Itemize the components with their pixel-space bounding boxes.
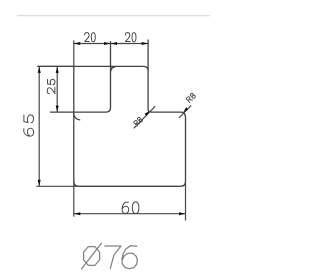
top edge — [37, 65, 143, 67]
60-dim line — [74, 213, 186, 215]
step floor right segment — [151, 111, 181, 113]
fillet R8 inside corner at right wall — [148, 109, 151, 112]
part outline: left edge — [73, 66, 75, 181]
right edge — [185, 118, 187, 182]
caption glyph: 6 of Ø76 — [122, 246, 137, 269]
dim text 25 (rotated) — [47, 79, 55, 93]
arrow top-dim middle right — [111, 42, 118, 45]
65-dim line — [38, 66, 40, 186]
arrow top-dim left — [74, 42, 81, 45]
65 bottom extension — [36, 185, 79, 187]
25-dim line — [56, 66, 58, 112]
60 right extension — [185, 181, 187, 220]
arrow 65 top — [38, 66, 41, 73]
radius text R8 #1 (rotated 45) — [134, 117, 143, 126]
arrow 60 left — [74, 212, 81, 215]
arrow top-dim middle left — [104, 42, 111, 45]
65 top extension — [37, 65, 74, 67]
caption glyph: 7 of Ø76 — [105, 246, 121, 268]
dim text 20 (left) — [85, 33, 96, 42]
caption glyph: diameter symbol of Ø76 — [82, 243, 138, 269]
fillet at top-right of top edge — [143, 66, 148, 71]
top dimension line — [74, 43, 149, 45]
60 left extension — [73, 181, 75, 217]
extension line left (above corner) — [73, 40, 75, 66]
arrow R8 #1 — [145, 111, 150, 116]
arrow R8 #2 — [183, 107, 188, 112]
interior fillet arc at left edge / step floor corner — [74, 113, 80, 119]
fillet top of right edge — [181, 112, 186, 118]
right wall of tab — [147, 40, 149, 110]
fillet at tab left wall top — [111, 67, 116, 72]
step floor left segment — [50, 111, 106, 113]
arrow 60 right — [179, 212, 186, 215]
fillet bottom-left corner — [74, 181, 79, 186]
arrow 65 bottom — [38, 180, 41, 187]
arrow 25 bottom — [56, 106, 59, 113]
faint page rule at top — [17, 15, 210, 17]
arrow 25 top — [56, 66, 59, 73]
left wall of tab — [110, 41, 112, 107]
fillet at bottom of left wall — [106, 108, 111, 113]
fillet bottom-right corner — [180, 181, 185, 186]
dim text 20 (right) — [125, 33, 136, 42]
dim text 65 (rotated) — [24, 115, 34, 136]
arrow top-dim right — [142, 42, 149, 45]
R8 leader #2 — [179, 106, 191, 118]
radius text R8 #2 (rotated 45) — [186, 93, 196, 103]
dim text 60 — [122, 202, 139, 214]
bottom edge — [79, 185, 180, 187]
R8 leader #1 — [134, 106, 155, 128]
